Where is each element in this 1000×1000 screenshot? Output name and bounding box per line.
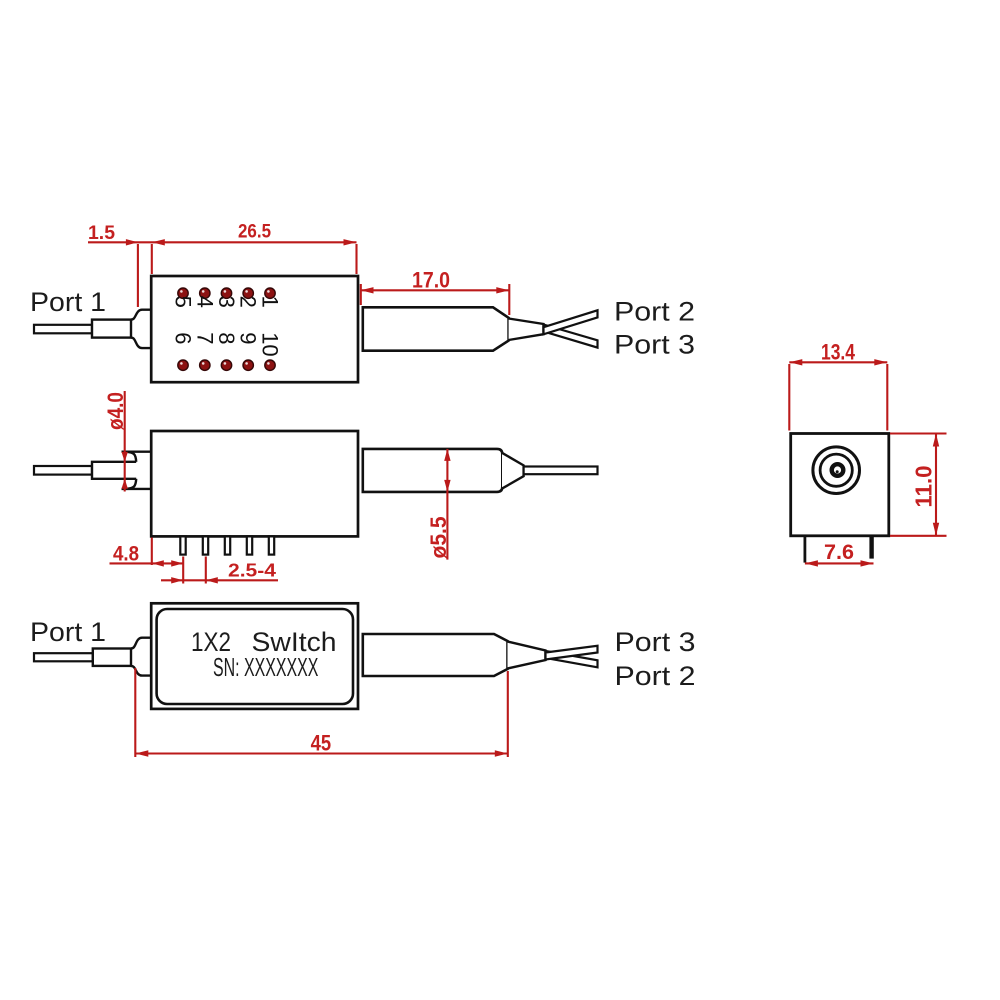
svg-text:10: 10: [258, 332, 283, 356]
svg-text:ø5.5: ø5.5: [426, 517, 451, 559]
svg-text:1: 1: [258, 296, 283, 308]
svg-text:6: 6: [171, 332, 196, 344]
svg-text:2: 2: [236, 296, 261, 308]
svg-text:8: 8: [214, 332, 239, 344]
svg-text:5: 5: [171, 296, 196, 308]
svg-text:1.5: 1.5: [88, 223, 115, 244]
svg-text:Port 3: Port 3: [614, 330, 695, 360]
svg-text:SN: XXXXXXX: SN: XXXXXXX: [213, 652, 318, 682]
svg-text:Port 1: Port 1: [30, 617, 106, 647]
svg-text:7.6: 7.6: [824, 541, 854, 564]
svg-text:9: 9: [236, 332, 261, 344]
svg-text:11.0: 11.0: [911, 466, 937, 508]
svg-text:Port 3: Port 3: [615, 627, 696, 657]
svg-text:Port 1: Port 1: [30, 287, 106, 317]
svg-text:13.4: 13.4: [821, 340, 856, 365]
svg-text:Port 2: Port 2: [615, 661, 696, 691]
svg-text:2.5-4: 2.5-4: [228, 560, 276, 580]
svg-text:4.8: 4.8: [113, 543, 139, 566]
svg-text:17.0: 17.0: [412, 268, 450, 293]
svg-text:7: 7: [192, 332, 217, 344]
svg-text:3: 3: [214, 296, 239, 308]
svg-text:Port 2: Port 2: [614, 296, 695, 326]
svg-text:4: 4: [192, 296, 217, 308]
svg-text:45: 45: [311, 731, 332, 756]
svg-text:ø4.0: ø4.0: [103, 392, 128, 430]
svg-text:26.5: 26.5: [238, 222, 271, 243]
